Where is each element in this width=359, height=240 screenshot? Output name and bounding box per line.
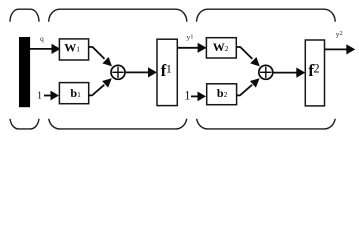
wire W2 to sum2 [236,47,259,66]
bracket layer1 group [49,9,187,129]
box W2 [206,38,236,58]
box b2 [207,84,237,105]
wire y1 arrow f1 to W2 [177,43,206,53]
box b1 [59,83,88,104]
wire W1 to sum1 [89,47,112,66]
svg-text:1: 1 [166,61,172,75]
svg-text:y2: y2 [336,29,343,38]
wire b1 to sum1 [89,78,112,95]
summer S2 [259,65,273,79]
input vector bar [19,37,30,107]
svg-text:1: 1 [37,90,43,102]
box f2 [305,40,324,106]
wire sum2 to f2 [274,68,306,78]
svg-text:y1: y1 [187,32,194,41]
wire y2 output arrow [325,44,356,54]
box W1 [59,39,88,60]
wire b2 to sum2 [237,78,260,95]
svg-text:q: q [40,34,44,43]
summer S1 [111,65,125,79]
wire 1 arrow to b2 [191,92,206,102]
svg-text:1: 1 [184,89,190,103]
box f1 [157,39,177,105]
svg-text:2: 2 [313,62,319,76]
bracket input group [10,9,39,129]
wire 1 arrow to b1 [44,91,59,101]
wire sum1 to f1 [126,67,157,77]
wire q arrow bar to W1 [30,44,61,54]
bracket layer2 group [197,9,336,129]
